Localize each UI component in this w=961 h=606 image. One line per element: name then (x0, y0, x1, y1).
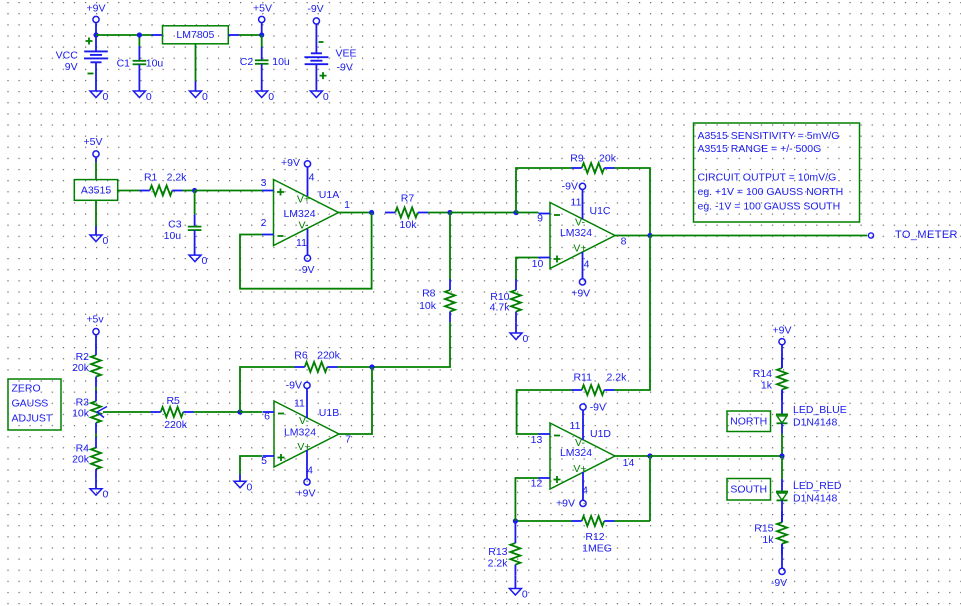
R13 ground stub (514, 575, 516, 588)
potentiometer R3 10k (72, 391, 107, 434)
annotation text box (694, 123, 860, 222)
power bubble -9V U1D (580, 402, 606, 414)
svg-text:A3515 SENSITIVITY = 5mV/G: A3515 SENSITIVITY = 5mV/G (698, 130, 840, 142)
capacitor C2 10u (240, 35, 290, 91)
svg-text:V+: V+ (297, 441, 310, 453)
power bubble -9V U1A (298, 255, 314, 276)
wire LM7805 out to +5V node (239, 34, 262, 36)
svg-text:2.2k: 2.2k (167, 171, 188, 183)
svg-text:eg. -1V = 100 GAUSS SOUTH: eg. -1V = 100 GAUSS SOUTH (698, 201, 841, 213)
label box NORTH (727, 411, 771, 432)
label box ZERO GAUSS ADJUST (8, 379, 61, 430)
resistor R9 20k feedback (570, 153, 616, 173)
wire node up to U1D pin 12 (515, 478, 538, 521)
wire R9 feedback loop (516, 168, 572, 213)
svg-text:12: 12 (531, 477, 543, 489)
op-amp U1B (LM324) body (274, 401, 339, 467)
capacitor C1 10u (117, 35, 164, 91)
svg-text:R13: R13 (488, 546, 507, 558)
svg-text:LM324: LM324 (560, 227, 592, 239)
node junction R7/R8 (447, 210, 452, 215)
+5V bubble pin (261, 23, 263, 35)
svg-text:A3515 RANGE = +/- 500G: A3515 RANGE = +/- 500G (698, 143, 822, 155)
node junction LEDs (779, 453, 784, 458)
svg-text:-9V: -9V (590, 402, 606, 414)
wire VCC pin top (blue) bubble to battery (95, 23, 97, 51)
svg-text:11: 11 (571, 197, 582, 209)
svg-text:D1N4148: D1N4148 (793, 416, 838, 428)
svg-text:-9V: -9V (562, 180, 578, 192)
svg-text:4: 4 (584, 259, 590, 271)
wire U1D out to LED node (650, 455, 782, 457)
node junction VCC/+9V rail (93, 32, 98, 37)
wire R11 right up to U1C out node (615, 236, 651, 391)
ground 0 below VCC (90, 91, 109, 103)
U1A input pin stubs (262, 191, 274, 235)
svg-text:V+: V+ (573, 463, 586, 475)
op-amp U1C (LM324) body (550, 203, 615, 269)
node junction U1B pin6 (237, 409, 242, 414)
node junction U1A out (369, 210, 374, 215)
LM7805 input pin stub (152, 34, 163, 36)
svg-text:A3515: A3515 (81, 184, 112, 196)
capacitor C3 10u (164, 191, 202, 256)
svg-text:220k: 220k (164, 419, 188, 431)
wire U1A output (339, 212, 372, 214)
wire R7 to R8 node (428, 212, 450, 214)
VEE top pin (315, 24, 317, 53)
ground 0 below A3515 (90, 235, 109, 247)
R4 to ground (95, 480, 97, 489)
svg-text:-9V: -9V (337, 62, 353, 74)
svg-text:20k: 20k (599, 153, 617, 165)
svg-text:11: 11 (296, 237, 307, 249)
ground 0 at U1B pin5 (234, 481, 253, 493)
diode LED_BLUE D1N4148 (776, 414, 788, 423)
svg-text:U1D: U1D (590, 428, 611, 440)
svg-text:220k: 220k (317, 350, 341, 362)
svg-text:LM324: LM324 (283, 208, 315, 220)
svg-text:0: 0 (202, 91, 208, 103)
R14 bottom pin to LED_BLUE (781, 390, 783, 415)
svg-text:+5v: +5v (86, 314, 104, 326)
svg-text:R12: R12 (585, 531, 604, 543)
svg-text:LM324: LM324 (284, 427, 316, 439)
svg-text:7: 7 (345, 434, 351, 446)
svg-text:R7: R7 (401, 193, 415, 205)
node junction C1 top (137, 32, 142, 37)
wire node to U1A pin 3 (195, 190, 262, 192)
wire U1A feedback loop to pin 2 (240, 213, 372, 289)
svg-text:LM7805: LM7805 (176, 29, 214, 41)
LED_RED cathode pin to R15 (781, 500, 783, 522)
wire node to U1C pin9 node (450, 212, 516, 214)
wire R12 right (615, 520, 651, 522)
svg-text:2: 2 (261, 217, 267, 229)
wire R12 left to node (515, 520, 571, 522)
svg-text:4: 4 (309, 172, 315, 184)
wire node up to R6 (240, 367, 295, 412)
wire U1B pin 5 to ground (240, 456, 262, 474)
svg-text:eg. +1V = 100 GAUSS NORTH: eg. +1V = 100 GAUSS NORTH (698, 186, 844, 198)
svg-text:0: 0 (146, 91, 152, 103)
power bubble +5V at A3515 (84, 136, 103, 157)
svg-text:R11: R11 (573, 372, 592, 384)
node junction R9/pin9 (513, 210, 518, 215)
ground 0 below R4 (90, 489, 109, 501)
A3515 ground pin (95, 200, 97, 226)
svg-text:R6: R6 (294, 350, 308, 362)
wire R3-R4 (95, 434, 97, 438)
svg-text:SOUTH: SOUTH (730, 484, 767, 496)
power bubble +9V U1D (556, 497, 586, 509)
svg-text:GAUSS: GAUSS (12, 398, 49, 410)
node junction R6/U1B out (369, 364, 374, 369)
svg-text:C3: C3 (168, 218, 182, 230)
resistor R14 1k (753, 357, 787, 400)
svg-text:VEE: VEE (335, 48, 356, 60)
wire TO_METER from U1C out (650, 235, 867, 237)
power bubble +5v R2 (86, 314, 104, 335)
svg-text:ADJUST: ADJUST (12, 413, 53, 425)
svg-text:U1A: U1A (319, 189, 339, 201)
svg-text:10u: 10u (164, 230, 182, 242)
wire VCC minus pin (blue) to ground (95, 62, 97, 91)
svg-text:-9V: -9V (307, 3, 323, 15)
wire A3515 output to R1 (118, 190, 140, 192)
svg-text:0: 0 (202, 255, 208, 267)
node junction R12/R13/pin12 (513, 518, 518, 523)
wire U1C pin 10 to R10 (516, 258, 539, 281)
svg-text:0: 0 (523, 333, 529, 345)
svg-text:9V: 9V (65, 61, 78, 73)
U1D input pin stubs (539, 434, 551, 478)
svg-text:0: 0 (103, 91, 109, 103)
terminal TO_METER (868, 229, 958, 241)
wire node to U1C pin 9 (516, 212, 539, 214)
ground 0 below C2 (256, 91, 275, 103)
power bubble +9V top-left (87, 3, 106, 23)
resistor R4 20k (72, 437, 101, 480)
svg-text:C1: C1 (117, 57, 131, 69)
wire R5 to U1B node (194, 411, 241, 413)
svg-text:U1C: U1C (589, 205, 610, 217)
LM7805 ground pin wire (195, 44, 197, 81)
wire R2-R3 (95, 387, 97, 391)
svg-text:10u: 10u (272, 56, 290, 68)
svg-text:V+: V+ (573, 243, 586, 255)
svg-text:-9V: -9V (771, 577, 787, 589)
svg-text:NORTH: NORTH (730, 416, 767, 428)
wire U1C output (615, 235, 650, 237)
battery VCC plates (84, 51, 108, 62)
svg-text:+9V: +9V (297, 487, 316, 499)
svg-text:TO_METER: TO_METER (895, 229, 958, 241)
svg-text:ZERO: ZERO (12, 383, 41, 395)
VEE bottom pin to ground (315, 64, 317, 91)
svg-text:-9V: -9V (298, 264, 314, 276)
power bubble +9V R14 (773, 325, 792, 345)
svg-text:LED_BLUE: LED_BLUE (793, 404, 847, 416)
wire node to LED_RED (781, 456, 783, 479)
U1A pin 4 power stub (307, 167, 309, 196)
svg-text:+5V: +5V (253, 3, 272, 15)
R15 bottom pin to -9V (781, 545, 783, 569)
resistor R2 20k (72, 344, 101, 387)
svg-text:R9: R9 (570, 153, 584, 165)
diode LED_RED D1N4148 (776, 492, 788, 501)
svg-text:10k: 10k (72, 408, 90, 420)
svg-text:1k: 1k (762, 534, 774, 546)
resistor R5 220k (151, 395, 194, 431)
resistor R12 1MEG (572, 516, 615, 555)
svg-text:4: 4 (307, 465, 313, 477)
wire U1D out down to R12 (649, 456, 651, 521)
svg-text:20k: 20k (72, 454, 90, 466)
regulator LM7805 U? (163, 26, 229, 44)
svg-text:1MEG: 1MEG (582, 543, 612, 555)
op-amp U1A (LM324) body (274, 180, 340, 246)
svg-text:0: 0 (323, 91, 329, 103)
wire +9V rail to LM7805 input (96, 34, 152, 36)
LM7805 output pin stub (228, 34, 239, 36)
svg-text:+9V: +9V (87, 3, 106, 15)
wire node to U1B pin 6 (240, 411, 262, 413)
svg-text:+9V: +9V (556, 497, 575, 509)
svg-text:9: 9 (537, 213, 543, 225)
op-amp U1D (LM324) body (550, 423, 615, 489)
svg-text:R1: R1 (144, 171, 158, 183)
svg-text:0: 0 (247, 481, 253, 493)
svg-text:13: 13 (531, 434, 543, 446)
power bubble +9V U1B (297, 479, 316, 500)
R10 ground stub (515, 322, 517, 333)
svg-text:+9V: +9V (773, 325, 792, 337)
power bubble -9V U1C (562, 180, 586, 192)
svg-text:R15: R15 (754, 523, 773, 535)
svg-text:10k: 10k (400, 219, 418, 231)
power bubble +5V top (253, 3, 272, 23)
svg-text:2.2k: 2.2k (606, 372, 627, 384)
svg-text:VCC: VCC (56, 49, 79, 61)
svg-text:C2: C2 (240, 56, 254, 68)
svg-text:R5: R5 (166, 395, 180, 407)
svg-text:1k: 1k (761, 380, 773, 392)
resistor R11 2.2k (572, 372, 628, 396)
resistor R13 2.2k (488, 521, 521, 575)
svg-text:14: 14 (623, 457, 635, 469)
svg-text:LM324: LM324 (560, 447, 592, 459)
svg-text:D1N4148: D1N4148 (793, 492, 838, 504)
svg-text:8: 8 (621, 236, 627, 248)
svg-text:20k: 20k (72, 362, 90, 374)
svg-text:LED_RED: LED_RED (793, 480, 842, 492)
svg-text:+9V: +9V (281, 157, 300, 169)
svg-text:R14: R14 (753, 368, 772, 380)
LED_BLUE cathode pin (781, 423, 783, 433)
svg-text:11: 11 (294, 398, 305, 410)
svg-text:10: 10 (532, 258, 544, 270)
node junction U1C out (647, 233, 652, 238)
svg-text:U1B: U1B (319, 407, 339, 419)
U1A pin 11 power stub (307, 229, 309, 255)
ground 0 below R10 (510, 333, 529, 345)
wire R8 bottom to R6 node (372, 322, 450, 367)
wire R11 left to U1D pin 13 (517, 390, 572, 434)
svg-text:0: 0 (268, 91, 274, 103)
LED_RED anode pin (781, 479, 783, 492)
svg-text:1: 1 (344, 199, 350, 211)
svg-text:0: 0 (522, 589, 528, 601)
wire R1 to node (183, 190, 195, 192)
node junction U1D out (647, 453, 652, 458)
svg-text:3: 3 (261, 177, 267, 189)
resistor R7 10k (385, 193, 428, 231)
ground 0 below R13 (509, 589, 528, 601)
svg-text:CIRCUIT OUTPUT = 10mV/G: CIRCUIT OUTPUT = 10mV/G (698, 172, 837, 184)
wire R3 wiper to R5 (103, 411, 151, 413)
ground 0 below C3 (189, 255, 208, 267)
svg-text:2.2k: 2.2k (488, 557, 509, 569)
svg-text:0: 0 (103, 489, 109, 501)
svg-text:+5V: +5V (84, 136, 103, 148)
U1B input pin stubs (263, 412, 275, 456)
power bubble +9V U1A (281, 157, 311, 169)
U1C input pin stubs (539, 214, 551, 258)
node junction R1/C3/U1A+ (192, 188, 197, 193)
power bubble +9V U1C (571, 279, 590, 300)
sensor A3515 (74, 180, 117, 201)
label box SOUTH (727, 479, 771, 501)
power bubble -9V U1B (286, 379, 310, 391)
battery VEE -9V (304, 53, 328, 64)
resistor R10 4.7k (490, 279, 521, 322)
resistor R8 10k (419, 213, 455, 323)
svg-text:11: 11 (570, 420, 581, 432)
node junction +5V/C2 (259, 32, 264, 37)
svg-text:0: 0 (103, 235, 109, 247)
power bubble -9V R15 (771, 568, 787, 589)
svg-text:+9V: +9V (571, 287, 590, 299)
wire LED_BLUE to node (781, 434, 783, 457)
wire R6 right to junction (338, 366, 373, 368)
svg-text:R8: R8 (422, 288, 436, 300)
ground 0 below LM7805 (190, 91, 209, 103)
svg-text:-9V: -9V (286, 379, 302, 391)
wire U1D output (615, 455, 650, 457)
ground 0 below VEE (310, 91, 329, 103)
svg-text:10k: 10k (419, 300, 437, 312)
svg-text:4.7k: 4.7k (490, 302, 511, 314)
ground 0 below C1 (133, 91, 152, 103)
resistor R15 1k (754, 512, 787, 555)
svg-text:6: 6 (264, 411, 270, 423)
power bubble -9V top (307, 3, 323, 24)
resistor R1 2.2k (140, 171, 188, 195)
wire junction down to U1B output pin 7 (339, 367, 372, 434)
resistor R6 220k (294, 350, 340, 372)
svg-text:4: 4 (582, 485, 588, 497)
svg-text:10u: 10u (146, 57, 164, 69)
